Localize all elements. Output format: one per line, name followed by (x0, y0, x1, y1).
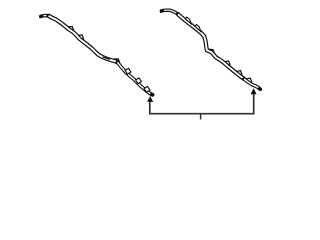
right strip band head (161, 10, 178, 14)
bracket / leader lines (149, 94, 255, 119)
left strip band head (41, 16, 52, 18)
left strip shelf pinch (103, 57, 110, 59)
left strip tip hook (40, 16, 41, 18)
wire: middle tick (200, 114, 202, 120)
wire: right arrow leg (253, 94, 255, 114)
left strip teeth (68, 27, 120, 64)
right strip notch bumps (185, 17, 200, 31)
arrowhead left (147, 96, 153, 102)
right strip tip hook (161, 11, 162, 13)
left strip band main (49, 16, 118, 62)
right strip band main (178, 14, 244, 79)
left strip band tail (118, 62, 153, 95)
right strip band tail (244, 79, 260, 89)
left strip notch diamonds (125, 68, 150, 92)
right strip teeth (209, 49, 252, 82)
wire: bracket horizontal (149, 113, 255, 115)
wire: left arrow leg (149, 102, 151, 114)
arrowhead right (251, 88, 257, 94)
